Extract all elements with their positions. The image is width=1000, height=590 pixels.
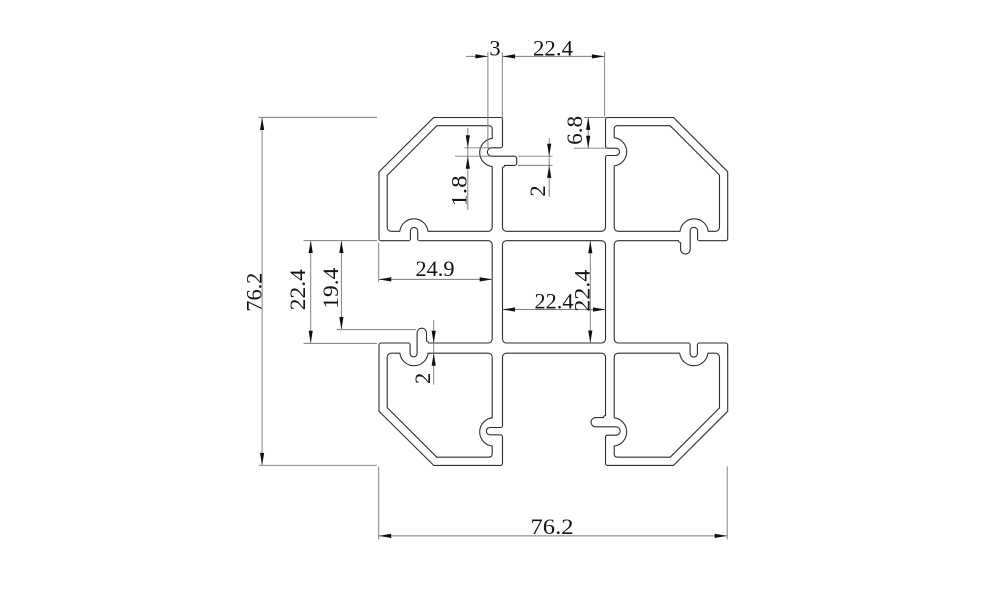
svg-text:24.9: 24.9 <box>416 256 455 281</box>
svg-text:2: 2 <box>525 185 550 196</box>
dimension: left "22.4" <box>285 241 377 344</box>
dimension: central "22.4" vertical <box>570 241 595 343</box>
dimension: "24.9" <box>379 243 493 282</box>
top-right block cavity (with screw dome on west wall and T-slot dome on bottom) <box>614 126 719 232</box>
svg-text:76.2: 76.2 <box>242 273 267 312</box>
svg-text:22.4: 22.4 <box>533 36 573 61</box>
profile outer boundary (76.2x76.2 extrusion outline with chamfers, T-slot hooks and screw-port fingers) <box>379 118 728 466</box>
top-left block cavity (with west T-slot dome and screw dome) <box>387 126 492 232</box>
dimension: bottom "76.2" <box>379 466 728 539</box>
svg-text:22.4: 22.4 <box>570 270 595 312</box>
dimension: "2" (bottom-left wall thickness) <box>410 320 436 385</box>
dimension: "2" (top lip thickness) <box>518 138 553 197</box>
central square cell 22.4 x 22.4 <box>503 241 606 343</box>
dimension: "6.8" <box>562 116 606 148</box>
svg-text:1.8: 1.8 <box>447 176 472 207</box>
svg-text:22.4: 22.4 <box>285 269 310 310</box>
dimension: top "3" and "22.4" <box>466 36 605 148</box>
dimension: "1.8" <box>447 128 491 210</box>
bottom-left block cavity <box>387 353 492 457</box>
svg-text:3: 3 <box>489 36 500 61</box>
svg-text:19.4: 19.4 <box>318 268 343 309</box>
svg-text:2: 2 <box>410 373 435 384</box>
svg-text:6.8: 6.8 <box>562 116 587 145</box>
dimension: central "22.4" horizontal <box>503 288 606 313</box>
svg-text:76.2: 76.2 <box>531 514 574 539</box>
bottom-right block cavity <box>614 353 719 457</box>
svg-text:22.4: 22.4 <box>535 288 574 313</box>
dimension: "19.4" <box>318 241 416 330</box>
dimension: left "76.2" <box>242 117 378 465</box>
